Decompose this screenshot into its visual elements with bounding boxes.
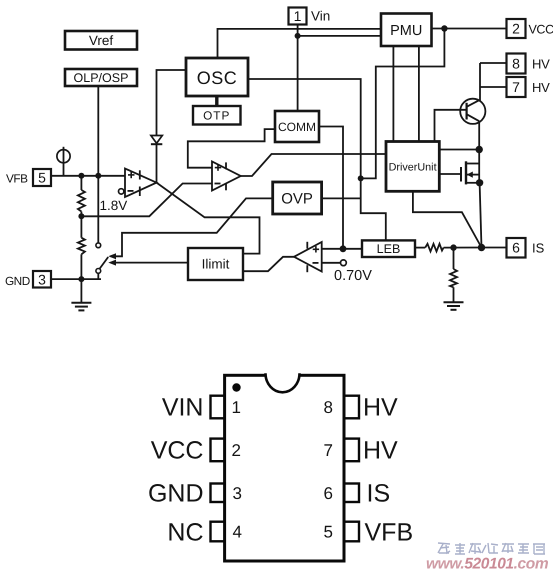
resistor R3 [425,244,443,252]
svg-text:NC: NC [167,519,203,547]
wire DriverUnit to Q1 base [435,110,467,142]
svg-text:1: 1 [294,8,302,24]
resistor R2 [80,216,82,237]
svg-text:0.70V: 0.70V [334,268,372,284]
switch S1 [96,243,101,248]
IC body [225,375,344,561]
pin 2 box [507,19,526,38]
PACKAGE pin diagram [211,373,360,561]
svg-text:6: 6 [324,484,333,503]
svg-text:VIN: VIN [162,394,204,422]
watermark chinese glyphs [438,543,545,554]
svg-text:3: 3 [38,272,46,288]
svg-text:LEB: LEB [377,242,401,256]
wire OVP output [322,197,361,199]
wire R3 to IS node [444,247,482,249]
wire CMP node to LEB [343,248,362,250]
wire OVP to switch arrow [111,198,273,256]
svg-text:GND: GND [148,480,204,508]
svg-text:2: 2 [232,441,241,460]
box OTP [193,106,241,125]
arrow mosfet bulk [467,172,473,178]
current source CS1 [57,150,70,163]
wire CMP minus to 0.70V terminal [322,262,341,264]
pin stub 6 [344,484,359,503]
pin 3 box [33,271,51,288]
wire Q1 emitter down [478,121,480,149]
arrow to switch lower [108,260,116,266]
box OLP/OSP [65,69,137,86]
svg-text:GND: GND [5,274,30,288]
pin 5 box [33,169,51,186]
wire PMU to DriverUnit left [392,46,394,142]
svg-text:3: 3 [233,484,242,503]
svg-text:5: 5 [38,170,46,186]
svg-text:Vref: Vref [89,33,114,48]
svg-text:OSC: OSC [197,68,238,88]
wire PMU to DriverUnit right [418,46,420,142]
node 1.8V terminal [119,189,124,194]
transistor Q1 [460,99,485,124]
box LEB [362,240,415,257]
pin 8 box [507,54,526,74]
wire EA2 output to DriverUnit [241,154,386,176]
pin stub 7 [344,439,359,462]
svg-text:8: 8 [324,398,333,417]
svg-text:OVP: OVP [281,191,313,208]
svg-text:COMM: COMM [278,120,316,134]
svg-text:8: 8 [512,56,520,72]
box OSC U2 [186,58,248,96]
wire PMU to pin2 VCC [432,28,507,30]
svg-text:OTP: OTP [203,109,230,123]
wire Vin rail from OSC riser to PMU [218,29,382,58]
notch [266,373,300,392]
wire OLP/OSP down to switch [97,86,99,243]
svg-text:1: 1 [232,398,241,417]
svg-text:Vin: Vin [311,9,330,24]
pin stub 5 [344,522,359,542]
svg-text:1.8V: 1.8V [100,198,128,213]
box Vref [65,31,137,50]
wire LEB to R3 [415,247,425,249]
arrow to switch upper [108,253,116,259]
wire Ilimit output to switch [111,262,189,264]
ground G2 [444,301,464,303]
node 0.70V terminal [341,260,347,266]
pin stub 8 [344,396,359,419]
wire EA1 output to Ilimit [157,183,260,254]
pin stub 2 [211,439,225,462]
svg-text:6: 6 [512,240,520,256]
pin stub 3 [211,484,225,503]
svg-text:HV: HV [532,57,550,72]
wire VFB to EA1 [51,175,125,177]
wire HV down to Q1 collector [479,63,481,101]
wire diode to EA1 output [156,144,158,182]
wire CMP plus input [322,248,343,250]
resistor R4 [453,248,455,269]
svg-text:4: 4 [233,523,242,542]
wire pin1 to PMU [298,35,381,37]
ground G1 [80,279,82,303]
box Ilimit [188,248,243,280]
op-amp EA2 [212,162,241,191]
pin stub 4 [211,522,225,542]
resistor R1 [80,176,82,190]
wire pin1 drop to COMM [297,25,299,112]
comparator CMP 0.70V [294,242,322,272]
OSC-OTP connector [215,96,218,106]
pin 6 box [507,238,526,258]
wire EA2 minus to divider [81,184,212,217]
WATERMARK [426,543,549,573]
wire pin8 HV [480,62,507,64]
op-amp EA1 [125,169,157,198]
wire DriverUnit right to drain node [439,149,479,151]
wire VCC tap into core [361,29,445,179]
box OVP [273,182,322,214]
box PMU [381,14,432,47]
mosfet M1 [465,161,467,184]
svg-text:VFB: VFB [365,519,414,547]
wire M1 source to IS node [480,183,482,248]
svg-text:www.520101.com: www.520101.com [426,556,549,573]
svg-text:2: 2 [512,21,520,37]
pin 7 box [507,77,526,97]
svg-text:HV: HV [363,437,398,465]
svg-text:DriverUnit: DriverUnit [389,162,437,174]
pin1 marker dot [232,383,240,391]
svg-text:7: 7 [512,79,520,95]
wire pin7 HV [480,86,507,88]
svg-text:HV: HV [363,394,398,422]
svg-text:Ilimit: Ilimit [202,257,230,272]
box DriverUnit [386,142,439,192]
svg-text:7: 7 [324,441,333,460]
pin stub 1 [211,396,225,419]
svg-text:IS: IS [532,241,545,256]
wire drain node down [478,150,480,164]
svg-text:VCC: VCC [529,23,553,37]
wire pin3 GND [51,278,101,280]
svg-text:5: 5 [324,523,333,542]
svg-text:IS: IS [367,480,391,508]
wire OSC left to diode [157,70,187,135]
svg-text:VCC: VCC [151,437,204,465]
svg-text:PMU: PMU [390,23,422,39]
wire IS node to pin6 [482,247,507,249]
wire COMM feedback to EA2 plus [188,129,275,168]
wire Ilimit to comparator CMP output [243,257,294,271]
svg-text:HV: HV [532,80,550,95]
svg-text:VFB: VFB [6,172,28,186]
box COMM [275,111,319,142]
wire OSC output down [248,79,386,240]
wire COMM right down to CMP plus [319,127,343,249]
svg-text:OLP/OSP: OLP/OSP [74,71,129,85]
diode D1 [151,136,162,144]
wire DriverUnit bottom to IS node [413,191,482,247]
pin 1 box [289,8,307,25]
